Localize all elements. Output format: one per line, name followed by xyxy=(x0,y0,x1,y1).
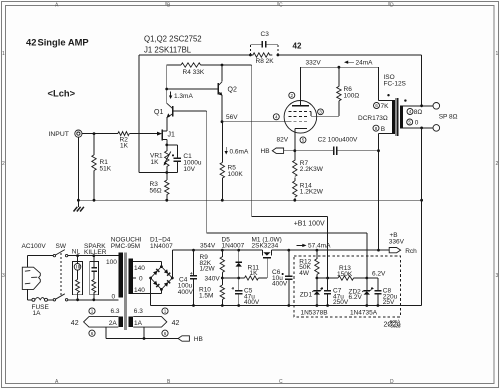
resistor R10 xyxy=(199,278,225,306)
wire OPT secondary 0 lead xyxy=(403,127,433,129)
svg-text:6: 6 xyxy=(375,103,378,108)
svg-text:Q2: Q2 xyxy=(228,87,237,94)
svg-text:8: 8 xyxy=(375,126,378,131)
wire jack to R2 xyxy=(82,133,118,135)
wire 0 tap down to ground buses xyxy=(421,128,423,306)
svg-text:Q1: Q1 xyxy=(154,109,163,116)
node NL top xyxy=(76,254,79,257)
svg-text:R4 33K: R4 33K xyxy=(183,69,205,76)
svg-text:0: 0 xyxy=(415,120,419,127)
transistor J1 xyxy=(157,129,175,140)
svg-text:D: D xyxy=(390,3,394,9)
label 0.6mA current xyxy=(225,147,227,154)
resistor R2 xyxy=(118,132,130,150)
svg-text:42: 42 xyxy=(71,320,79,327)
wire node X row xyxy=(317,277,338,279)
tube grid g3 xyxy=(289,116,308,118)
fuse F1 xyxy=(32,298,54,317)
wire +B1 supply run xyxy=(252,65,328,278)
svg-text:2: 2 xyxy=(2,161,5,167)
wire heater left drop xyxy=(105,327,107,338)
svg-text:0: 0 xyxy=(112,294,116,301)
svg-text:10V: 10V xyxy=(183,166,195,173)
tube cathode xyxy=(295,128,307,150)
capacitor C6 xyxy=(272,250,292,305)
svg-text:C: C xyxy=(279,379,283,385)
pin 1 left heater xyxy=(89,308,95,314)
frame column letters top xyxy=(55,2,394,9)
svg-text:1/2W: 1/2W xyxy=(200,266,216,273)
wire J1 drain up to Q1 emitter xyxy=(166,117,168,131)
switch link dashed xyxy=(60,253,62,296)
svg-text:5: 5 xyxy=(408,120,411,125)
svg-text:56Ω: 56Ω xyxy=(150,188,162,195)
pin 6 7K label xyxy=(374,103,390,111)
svg-text:354V: 354V xyxy=(200,243,216,250)
label D1-D4 1N4007 xyxy=(150,237,173,251)
svg-text:KILLER: KILLER xyxy=(84,249,107,256)
svg-text:D: D xyxy=(390,379,394,385)
transistor Q1 xyxy=(154,103,173,118)
wire NFB top run left of R8 xyxy=(139,54,250,56)
svg-text:400V: 400V xyxy=(272,281,288,288)
capacitor C7 xyxy=(321,278,349,306)
label 57.4mA current xyxy=(297,244,306,246)
svg-text:1K: 1K xyxy=(151,159,160,166)
wire J1 source down xyxy=(166,140,168,145)
date stamp xyxy=(384,319,402,329)
svg-text:1N5378B: 1N5378B xyxy=(301,310,328,317)
resistor R8 xyxy=(250,53,274,65)
svg-text:0.6mA: 0.6mA xyxy=(230,149,249,156)
wire NFB down to 8ohm tap xyxy=(421,55,423,106)
svg-text:DCR173Ω: DCR173Ω xyxy=(358,115,388,122)
svg-text:6.3: 6.3 xyxy=(111,308,120,315)
svg-text:1A: 1A xyxy=(134,320,143,327)
wire g2 to pin3 exit xyxy=(311,111,339,116)
svg-text:140: 140 xyxy=(134,287,145,294)
svg-text:J1 2SK117BL: J1 2SK117BL xyxy=(144,46,192,55)
svg-text:4W: 4W xyxy=(299,270,310,277)
svg-text:42Single AMP: 42Single AMP xyxy=(26,37,89,48)
ground bus y=200 xyxy=(78,199,421,201)
svg-text:1K: 1K xyxy=(120,143,129,150)
pin 1 right heater xyxy=(162,308,168,314)
node cathode junction xyxy=(293,149,296,152)
resistor R6 xyxy=(337,67,360,116)
tube grid g2 xyxy=(289,110,311,112)
terminal SP- xyxy=(433,125,440,132)
capacitor C3 xyxy=(250,31,278,55)
capacitor C2 xyxy=(295,137,379,156)
bottom ground bus xyxy=(151,305,422,307)
resistor R4 xyxy=(167,63,252,76)
wire NFB top run right of R8 xyxy=(278,54,422,56)
label NOGUCHI PMC-95M xyxy=(111,237,142,251)
svg-text:2.2K3W: 2.2K3W xyxy=(300,166,324,173)
wire OPT primary top lead xyxy=(379,67,393,100)
node SK top xyxy=(92,254,95,257)
label +B 336V xyxy=(389,232,405,246)
node HB junction xyxy=(143,337,146,340)
svg-text:24mA: 24mA xyxy=(356,60,374,67)
wire plug top lead xyxy=(28,256,54,268)
svg-text:3: 3 xyxy=(2,273,5,279)
svg-text:332V: 332V xyxy=(306,60,322,67)
node C6 top xyxy=(287,249,290,252)
transformer PT heater winding left xyxy=(118,316,123,326)
wire Q2 emitter down to 56V line xyxy=(221,95,223,122)
node +B1 zener junction xyxy=(316,277,319,280)
wire HV top lead xyxy=(133,261,161,266)
svg-text:82V: 82V xyxy=(277,137,289,144)
diode D5 xyxy=(235,250,242,278)
node D5 top xyxy=(237,249,240,252)
node C4 top xyxy=(192,249,195,252)
pin 8 B label xyxy=(373,125,385,133)
svg-text:2: 2 xyxy=(291,93,294,98)
node C2 to +B lead xyxy=(377,149,380,152)
pin 4 8ohm label xyxy=(407,109,422,117)
svg-text:0: 0 xyxy=(139,276,143,283)
spark killer SK xyxy=(90,256,99,300)
node Q2 collector junction xyxy=(221,64,224,67)
transformer PT core xyxy=(125,252,127,330)
svg-text:C: C xyxy=(279,3,283,9)
svg-text:42: 42 xyxy=(172,320,180,327)
svg-text:4: 4 xyxy=(409,109,412,114)
frame column letters bottom xyxy=(55,379,394,385)
svg-text:6.3: 6.3 xyxy=(134,308,143,315)
tube grid g1 xyxy=(289,121,308,123)
pin 5 0 label xyxy=(407,119,419,127)
svg-text:1: 1 xyxy=(91,309,94,314)
transformer PT heater winding right xyxy=(128,316,133,326)
resistor R3 xyxy=(150,173,170,201)
capacitor C5 xyxy=(232,278,260,306)
resistor R13 xyxy=(337,265,367,280)
potentiometer VR1 xyxy=(150,145,171,173)
node J1 source / C1 branch xyxy=(165,144,168,147)
svg-text:1: 1 xyxy=(2,51,5,57)
node VR1 bottom junction xyxy=(165,171,168,174)
svg-text:3: 3 xyxy=(496,273,499,279)
svg-text:400V: 400V xyxy=(178,289,194,296)
connector HB heater xyxy=(178,336,203,343)
pin 5 xyxy=(300,137,306,143)
svg-text:Q1,Q2 2SC2752: Q1,Q2 2SC2752 xyxy=(144,35,202,44)
node NL bottom xyxy=(76,298,79,301)
wire Q1 collector vertical xyxy=(166,65,168,104)
svg-text:100K: 100K xyxy=(228,171,244,178)
wire VR1 bottom row / feedback join xyxy=(139,172,177,174)
resistor R12 xyxy=(299,250,319,278)
transformer OPT FC-12S xyxy=(384,74,407,136)
terminal SP+ xyxy=(433,103,440,110)
svg-text:PMC-95M: PMC-95M xyxy=(111,243,140,250)
wire OPT primary bottom lead to +B xyxy=(379,134,393,251)
svg-text:1.5M: 1.5M xyxy=(199,293,213,300)
svg-text:4: 4 xyxy=(275,115,278,120)
svg-text:1N4735A: 1N4735A xyxy=(350,310,378,317)
tube plate xyxy=(292,67,309,106)
heater tag 42 left xyxy=(71,317,119,328)
svg-text:7K: 7K xyxy=(381,103,390,110)
pin 6 left heater xyxy=(89,330,95,336)
resistor R14 xyxy=(293,181,324,200)
svg-text:INPUT: INPUT xyxy=(49,131,69,138)
wire bridge minus down to bus xyxy=(150,278,152,306)
svg-text:1.2K2W: 1.2K2W xyxy=(300,189,324,196)
wire NFB left vertical xyxy=(138,55,140,173)
node 6.2V junction xyxy=(365,277,368,280)
node C7 top xyxy=(326,277,329,280)
svg-text:51K: 51K xyxy=(100,166,112,173)
svg-text:SW: SW xyxy=(56,243,67,250)
svg-text:100Ω: 100Ω xyxy=(344,93,360,100)
svg-text:42: 42 xyxy=(293,42,302,51)
svg-text:150K: 150K xyxy=(337,271,353,278)
svg-text:57.4mA: 57.4mA xyxy=(308,243,331,250)
neon lamp NL xyxy=(73,256,83,300)
svg-text:6.2V: 6.2V xyxy=(349,294,363,301)
pin 3 xyxy=(318,109,324,115)
svg-text:5: 5 xyxy=(302,138,305,143)
svg-text:1: 1 xyxy=(496,51,499,57)
node jack/R1 junction xyxy=(93,132,96,135)
pin 2 xyxy=(289,92,295,98)
svg-text:56V: 56V xyxy=(226,114,238,121)
resistor R7 xyxy=(293,151,324,181)
svg-text:1N4007: 1N4007 xyxy=(222,243,245,250)
svg-text:FC-12S: FC-12S xyxy=(384,81,407,88)
node Q2 base junction xyxy=(165,88,168,91)
svg-text:8Ω: 8Ω xyxy=(414,109,423,116)
svg-text:2A: 2A xyxy=(109,320,118,327)
svg-text:2: 2 xyxy=(496,161,499,167)
tube V1 envelope xyxy=(284,101,317,134)
node R9 top xyxy=(221,249,224,252)
svg-text:HB: HB xyxy=(194,336,203,343)
pin 4 xyxy=(273,114,279,120)
connector HB cathode xyxy=(261,148,295,155)
svg-text:AC100V: AC100V xyxy=(22,243,47,250)
svg-text:C2 100u400V: C2 100u400V xyxy=(318,137,358,144)
svg-text:140: 140 xyxy=(134,265,145,272)
svg-text:5025: 5025 xyxy=(391,324,402,329)
node 0 tap ground xyxy=(420,127,423,130)
label 0 HV tap xyxy=(133,276,143,283)
svg-text:1N4007: 1N4007 xyxy=(150,243,173,250)
svg-text:SP 8Ω: SP 8Ω xyxy=(439,114,458,121)
node R6 top xyxy=(338,66,341,69)
svg-text:+B1 100V: +B1 100V xyxy=(294,221,325,228)
svg-text:6: 6 xyxy=(164,331,167,336)
svg-text:6: 6 xyxy=(91,331,94,336)
resistor R11 xyxy=(245,264,268,280)
frame row numbers right xyxy=(496,51,499,279)
node R8 right xyxy=(277,54,280,57)
wire SW2 to transformer 0 xyxy=(68,299,119,301)
wire R2 to J1 gate xyxy=(129,133,157,135)
connector Rch xyxy=(379,248,418,255)
switch SW pole 2 xyxy=(53,294,68,301)
svg-text:1: 1 xyxy=(164,309,167,314)
wire 340V node row xyxy=(222,277,244,279)
zener ZD2 xyxy=(349,278,372,306)
wire heater right drop xyxy=(143,327,145,338)
node R5 top junction xyxy=(221,120,224,123)
transformer PT primary winding xyxy=(118,252,123,297)
wire Q1 base bias vertical xyxy=(173,111,367,278)
svg-text:ZD1: ZD1 xyxy=(300,291,313,298)
regulator dashed box xyxy=(294,256,400,317)
svg-text:2SK3234: 2SK3234 xyxy=(252,243,279,250)
label M1 2SK3234 xyxy=(252,236,282,249)
wire bridge plus up to rail xyxy=(172,250,262,278)
rail +B y=250 xyxy=(271,249,389,251)
svg-text:B: B xyxy=(381,126,385,133)
node bottom bus junctions xyxy=(192,304,379,307)
svg-text:HB: HB xyxy=(261,148,270,155)
label 24mA current xyxy=(345,61,354,63)
wire plate 332V run xyxy=(300,66,378,68)
node 340V junction xyxy=(221,277,224,280)
capacitor C4 xyxy=(178,250,197,305)
wire OPT secondary 8ohm lead xyxy=(403,105,433,107)
label SPARK KILLER xyxy=(84,243,107,256)
svg-text:336V: 336V xyxy=(389,239,405,246)
node R12 top xyxy=(316,249,319,252)
svg-text:1.3mA: 1.3mA xyxy=(174,93,193,100)
svg-text:3: 3 xyxy=(319,110,322,115)
svg-text:R8 2K: R8 2K xyxy=(256,58,275,65)
wire jack to ground bus xyxy=(77,137,79,200)
svg-text:1A: 1A xyxy=(33,310,42,317)
ground symbol xyxy=(74,200,84,211)
capacitor C8 xyxy=(367,278,398,306)
label 1.3mA current xyxy=(170,92,172,99)
node D5 bottom 340V xyxy=(237,277,240,280)
svg-text:6.2V: 6.2V xyxy=(372,271,386,278)
node SK bottom xyxy=(92,298,95,301)
node ground bus junctions xyxy=(77,199,423,202)
wire HB run xyxy=(106,338,178,340)
mosfet M1 xyxy=(262,250,271,278)
resistor R5 xyxy=(220,122,243,201)
svg-text:J1: J1 xyxy=(168,132,176,139)
input jack J xyxy=(75,130,82,137)
node R8 left xyxy=(249,54,252,57)
zener ZD1 xyxy=(300,278,322,306)
node NFB tap xyxy=(420,104,423,107)
resistor R9 xyxy=(200,250,225,278)
wire plug bottom lead xyxy=(28,289,32,299)
svg-text:Rch: Rch xyxy=(405,248,417,255)
label D5 1N4007 xyxy=(222,236,245,249)
wire SW1 to transformer 100 xyxy=(68,255,119,257)
wire Q1 collector node to Q2 base xyxy=(167,88,218,90)
svg-text:1K: 1K xyxy=(250,270,259,277)
transformer PT HV winding xyxy=(128,259,133,295)
svg-text:340V: 340V xyxy=(205,276,221,283)
svg-text:100: 100 xyxy=(106,259,117,266)
frame row numbers left xyxy=(2,51,5,279)
resistor R1 xyxy=(92,134,112,201)
pin 6 right heater xyxy=(162,330,168,336)
wire HV bottom lead xyxy=(133,289,161,293)
node +B to OPT lead xyxy=(377,249,380,252)
switch SW pole 1 xyxy=(53,250,68,257)
wire 56V to tube grid1 xyxy=(222,121,289,123)
svg-text:<Lch>: <Lch> xyxy=(48,88,76,99)
transistor Q2 xyxy=(218,65,237,96)
capacitor C1 xyxy=(167,145,202,173)
rectifier bridge D1-D4 xyxy=(149,265,174,291)
svg-text:NL: NL xyxy=(72,249,81,256)
heater tag 42 right xyxy=(133,317,179,328)
svg-text:C3: C3 xyxy=(261,31,270,38)
plug P1 xyxy=(22,267,40,289)
